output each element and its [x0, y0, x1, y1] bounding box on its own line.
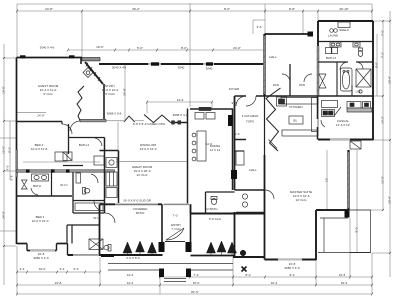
svg-text:12'-0": 12'-0" [381, 176, 385, 184]
svg-text:8'-8": 8'-8" [289, 7, 295, 11]
svg-text:24'-0": 24'-0" [233, 46, 241, 50]
svg-text:5'-6": 5'-6" [137, 46, 143, 50]
svg-text:LIN: LIN [356, 90, 361, 94]
svg-text:7'-2": 7'-2" [381, 52, 385, 58]
svg-text:PATIO: PATIO [136, 211, 145, 215]
svg-text:8'-0": 8'-0" [224, 7, 230, 11]
svg-text:14'-0": 14'-0" [37, 114, 45, 118]
svg-text:LAUND: LAUND [328, 34, 339, 38]
svg-text:3040 X 4'8: 3040 X 4'8 [112, 66, 127, 70]
svg-text:8'-0: 8'-0 [290, 273, 295, 277]
svg-text:36'-2": 36'-2" [132, 7, 140, 11]
svg-text:9'-0": 9'-0" [116, 157, 120, 163]
svg-text:3050 X 4'-6: 3050 X 4'-6 [284, 266, 300, 270]
svg-text:5'-0 CLG: 5'-0 CLG [209, 217, 222, 221]
svg-text:FOYER: FOYER [229, 87, 240, 91]
svg-text:14'-6: 14'-6 [177, 98, 184, 102]
svg-text:5'-8: 5'-8 [10, 175, 14, 180]
svg-text:10'-4: 10'-4 [271, 281, 278, 285]
svg-text:11'-0: 11'-0 [206, 142, 213, 146]
svg-text:9'-2": 9'-2" [8, 147, 12, 153]
svg-text:10': 10' [325, 178, 329, 182]
svg-text:BATH 2: BATH 2 [79, 143, 90, 147]
svg-text:3068 X 4-7: 3068 X 4-7 [173, 113, 188, 117]
svg-text:W.I.C: W.I.C [60, 183, 68, 187]
svg-text:BATH 2: BATH 2 [326, 56, 337, 60]
svg-text:BATH: BATH [33, 184, 41, 188]
svg-text:24'-6: 24'-6 [339, 273, 346, 277]
svg-text:24'-8: 24'-8 [55, 281, 62, 285]
svg-text:8'-0: 8'-0 [355, 227, 359, 232]
svg-text:12'-4: 12'-4 [127, 273, 134, 277]
svg-text:6'-0: 6'-0 [74, 267, 79, 271]
svg-text:SHELF: SHELF [339, 28, 349, 32]
svg-text:24'-0": 24'-0" [2, 211, 6, 219]
svg-text:9'-0: 9'-0 [232, 101, 237, 105]
svg-text:11 X 14: 11 X 14 [210, 148, 220, 152]
svg-text:7' CLG: 7' CLG [171, 227, 181, 231]
svg-text:12'-0 X 13'-0: 12'-0 X 13'-0 [32, 219, 49, 223]
svg-text:KITCHEN: KITCHEN [289, 105, 302, 109]
svg-text:3040: 3040 [178, 66, 185, 70]
svg-text:29'-4": 29'-4" [388, 76, 392, 84]
svg-text:8'-0": 8'-0" [181, 46, 187, 50]
svg-text:14'-0 X 12'-0: 14'-0 X 12'-0 [140, 147, 157, 151]
svg-text:14'-0": 14'-0" [2, 86, 6, 94]
svg-text:ISL: ISL [293, 119, 298, 123]
svg-text:19'-6": 19'-6" [96, 45, 104, 49]
svg-text:19'-2: 19'-2 [341, 281, 348, 285]
svg-text:4'-0: 4'-0 [6, 165, 10, 170]
svg-text:12'-4: 12'-4 [127, 281, 134, 285]
svg-text:12' CLG: 12' CLG [137, 173, 149, 177]
svg-text:14'-2": 14'-2" [381, 116, 385, 124]
svg-text:9' CLG: 9' CLG [105, 92, 115, 96]
svg-text:7'-0: 7'-0 [194, 273, 199, 277]
svg-text:81'-6": 81'-6" [191, 290, 199, 294]
svg-text:16'-0 X 8'-0 SLID DR: 16'-0 X 8'-0 SLID DR [123, 199, 152, 203]
svg-text:9'-0": 9'-0" [375, 62, 379, 68]
svg-text:7'-0: 7'-0 [173, 214, 178, 218]
svg-text:3'-4: 3'-4 [20, 267, 25, 271]
svg-text:8'-0: 8'-0 [246, 273, 251, 277]
svg-text:W.I.C: W.I.C [93, 216, 101, 220]
svg-text:3050 X 4'-6: 3050 X 4'-6 [33, 256, 49, 260]
svg-text:PAN: PAN [299, 83, 305, 87]
svg-text:24'-8": 24'-8" [45, 7, 53, 11]
svg-text:3040: 3040 [206, 67, 213, 71]
svg-text:10'-0: 10'-0 [39, 267, 46, 271]
svg-text:6'-0: 6'-0 [235, 132, 240, 136]
svg-text:6'-8 X 8'-0 CASED OPG: 6'-8 X 8'-0 CASED OPG [133, 122, 166, 126]
svg-text:3'-0 X 5'-0: 3'-0 X 5'-0 [126, 256, 140, 260]
svg-text:9' CLG: 9' CLG [43, 92, 53, 96]
svg-text:3'-4: 3'-4 [60, 267, 65, 271]
svg-text:24'-8": 24'-8" [123, 88, 127, 96]
svg-text:3'-6: 3'-6 [257, 25, 262, 29]
svg-text:7'-6": 7'-6" [381, 30, 385, 36]
svg-text:HALL: HALL [269, 55, 277, 59]
svg-text:3068 X 5-8: 3068 X 5-8 [107, 112, 122, 116]
svg-text:10' CLG: 10' CLG [296, 198, 308, 202]
svg-text:11'-6 X 13': 11'-6 X 13' [336, 123, 350, 127]
svg-text:29'-10": 29'-10" [339, 7, 348, 11]
svg-text:12'-6": 12'-6" [2, 146, 6, 154]
svg-text:3040 X 4-6: 3040 X 4-6 [40, 46, 55, 50]
svg-text:1/2 BATH: 1/2 BATH [205, 207, 218, 211]
svg-text:15'-0: 15'-0 [193, 281, 200, 285]
svg-text:12'-0 X 11'-6: 12'-0 X 11'-6 [31, 147, 48, 151]
svg-text:PAN: PAN [273, 83, 279, 87]
svg-text:3 CM GRAN: 3 CM GRAN [242, 114, 259, 118]
svg-text:29'-4": 29'-4" [388, 196, 392, 204]
svg-text:HALL: HALL [249, 168, 257, 172]
svg-text:TOPS: TOPS [246, 120, 254, 124]
